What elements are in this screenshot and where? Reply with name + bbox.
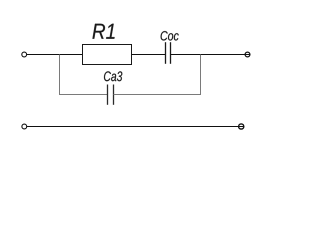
capacitor Coc: [166, 42, 171, 64]
wire (bottom rail, passes through right circle): [27, 126, 244, 128]
wire (R1 to Coc): [132, 54, 166, 56]
wire (Coc to right terminal, passes through circle): [171, 54, 251, 56]
resistor R1: [83, 45, 132, 65]
terminal (top-left input): [22, 52, 27, 57]
label Ca3: [104, 71, 122, 81]
label Coc: [161, 31, 179, 40]
wire (top rail, terminal to R1): [27, 54, 83, 56]
wire (parallel branch: bottom run and right rise to top rail): [114, 55, 201, 95]
terminal (bottom-left): [22, 124, 27, 129]
capacitor Ca3: [108, 85, 114, 105]
label R1: [92, 24, 114, 39]
terminal (top-right output): [245, 52, 250, 57]
terminal (bottom-right): [239, 124, 244, 129]
wire (parallel branch: left drop from top rail): [60, 55, 108, 95]
